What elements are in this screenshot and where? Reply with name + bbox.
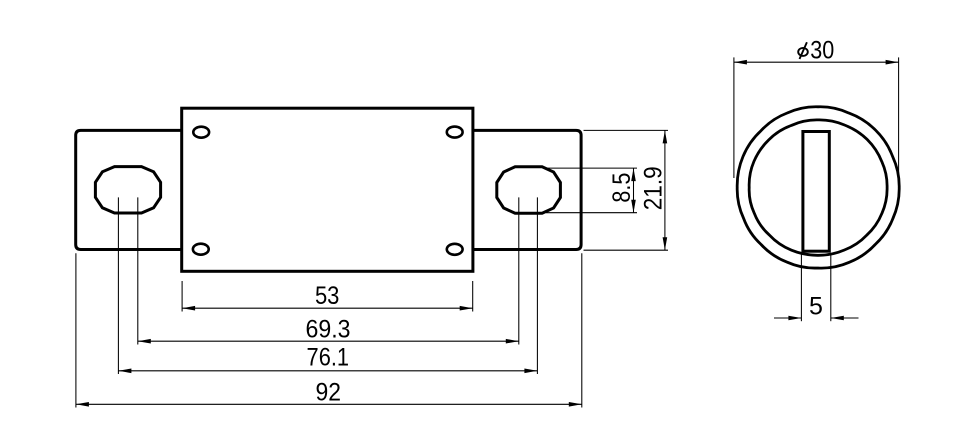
dimension phi30 xyxy=(734,36,899,178)
dimension 92 xyxy=(76,253,582,407)
left tab slot hole (faceted oval) xyxy=(95,167,160,213)
end cap inner circle (faceted) xyxy=(749,120,887,255)
screw hole bottom-left xyxy=(193,244,209,255)
svg-text:5: 5 xyxy=(809,293,823,321)
end cap slot rectangle xyxy=(803,132,829,252)
dimension 53 xyxy=(182,281,473,312)
svg-text:30: 30 xyxy=(810,36,834,64)
fuse body rectangle xyxy=(182,108,473,271)
svg-text:92: 92 xyxy=(316,378,342,406)
screw hole bottom-right xyxy=(447,244,463,255)
dimension 69.3 xyxy=(138,197,519,344)
svg-text:76.1: 76.1 xyxy=(307,343,350,371)
left mounting tab xyxy=(76,130,182,249)
right tab slot hole (faceted oval) xyxy=(497,167,561,213)
dimension 21.9 (tab height, right side) xyxy=(584,130,669,250)
end cap outer circle (faceted) xyxy=(737,107,899,268)
svg-text:21.9: 21.9 xyxy=(639,166,667,210)
screw hole top-right xyxy=(447,127,463,138)
dimension 76.1 xyxy=(118,197,537,374)
svg-text:8.5: 8.5 xyxy=(608,173,636,203)
svg-text:53: 53 xyxy=(315,282,340,310)
dimension 5 (slot width) xyxy=(774,253,859,321)
screw hole top-left xyxy=(193,127,209,138)
svg-text:69.3: 69.3 xyxy=(306,315,351,343)
right mounting tab xyxy=(473,130,581,249)
dimension 8.5 (slot height, right side) xyxy=(546,168,637,213)
